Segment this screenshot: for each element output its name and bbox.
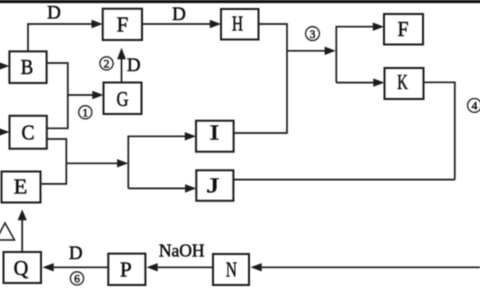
svg-text:3: 3	[310, 29, 316, 41]
box I	[196, 121, 234, 152]
box Q	[4, 252, 42, 283]
svg-text:D: D	[172, 4, 186, 25]
box F2	[384, 14, 423, 45]
label circled 2	[100, 57, 113, 71]
label circled 1	[79, 106, 92, 120]
wire K right down	[424, 82, 455, 179]
svg-text:F: F	[117, 13, 129, 37]
svg-text:D: D	[69, 243, 83, 264]
box H	[221, 9, 259, 40]
svg-text:J: J	[207, 174, 220, 198]
box N	[213, 254, 249, 285]
svg-text:Q: Q	[14, 256, 29, 280]
svg-text:N: N	[226, 258, 237, 282]
box J	[196, 170, 233, 201]
svg-text:6: 6	[74, 274, 80, 286]
wire B right down to C upper	[47, 63, 68, 128]
wire N to P, label NaOH	[156, 266, 213, 268]
wire branch to G	[68, 94, 94, 96]
wire H right down to I right	[234, 24, 287, 133]
svg-text:G: G	[117, 87, 129, 111]
svg-text:H: H	[232, 12, 243, 36]
box C	[10, 116, 47, 149]
box G	[104, 83, 142, 115]
svg-text:B: B	[21, 55, 34, 79]
wire P to Q, labels D and circled 6	[52, 266, 108, 268]
top border line	[0, 0, 480, 3]
svg-text:C: C	[22, 121, 35, 145]
svg-text:E: E	[14, 175, 28, 199]
svg-text:P: P	[120, 258, 132, 282]
box B	[9, 51, 46, 83]
svg-text:F: F	[398, 17, 409, 41]
wire J right to K vertical	[233, 179, 454, 181]
box P	[108, 254, 145, 285]
svg-text:NaOH: NaOH	[159, 241, 205, 261]
wire input to B	[0, 65, 3, 67]
label circled 3	[306, 27, 320, 41]
svg-text:K: K	[397, 70, 408, 94]
label circled 4	[468, 99, 480, 113]
wire branch to IJ junction	[66, 162, 119, 164]
svg-text:1: 1	[82, 108, 88, 120]
wire input to C	[0, 131, 3, 133]
junction wire to I and J	[128, 136, 186, 188]
box E	[2, 172, 41, 203]
arrow G up to F (label 2, D)	[121, 57, 123, 82]
arrow Q up to E	[21, 219, 23, 252]
box F	[103, 9, 142, 40]
heat triangle	[0, 223, 15, 240]
box K	[385, 68, 424, 99]
wire B top to F	[28, 24, 92, 51]
svg-text:2: 2	[104, 59, 110, 71]
wire F to H	[142, 23, 210, 25]
wire branch 3 to FK junction	[287, 50, 326, 52]
svg-text:I: I	[209, 121, 219, 145]
svg-text:D: D	[127, 55, 141, 76]
junction wire to F2 and K	[336, 27, 374, 83]
wire right edge to N	[256, 266, 480, 268]
svg-text:4: 4	[472, 101, 478, 113]
wire C lower junction to E	[41, 139, 67, 184]
svg-text:D: D	[47, 3, 61, 24]
